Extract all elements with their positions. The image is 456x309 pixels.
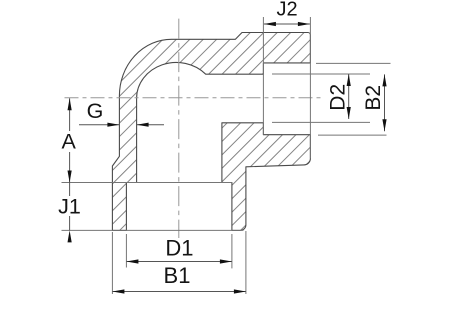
dimension J2 left arrow bbox=[264, 22, 276, 26]
vertical centerline (bottom leg axis) bbox=[178, 19, 180, 238]
dimension J2 line bbox=[264, 23, 310, 25]
dimension J2 right arrow bbox=[298, 22, 310, 26]
dimension D2 bottom arrow bbox=[347, 107, 351, 119]
dimension B1 line bbox=[112, 291, 246, 293]
svg-text:B2: B2 bbox=[362, 85, 385, 111]
dimension D2 line bbox=[348, 74, 350, 119]
bottom socket shoulder edge / A-J1 extension line bbox=[62, 182, 232, 184]
dimension B2 bottom extension line (socket bore bottom) bbox=[318, 134, 387, 136]
dimension J1 line upper bbox=[69, 183, 71, 197]
dimension A top arrow bbox=[68, 98, 72, 110]
svg-text:J2: J2 bbox=[276, 0, 297, 21]
dimension D2 top arrow bbox=[347, 74, 351, 86]
elbow body: inner corner wall band (hatched section cut) bbox=[222, 123, 311, 231]
dimension B1 left arrow bbox=[112, 289, 124, 293]
dimension D2 top extension line (bore top) bbox=[272, 73, 370, 75]
svg-text:G: G bbox=[87, 99, 104, 123]
dimension B2 top extension line (socket bore top) bbox=[316, 62, 391, 64]
dimension D1 right extension line bbox=[231, 234, 233, 268]
dimension J1 line lower bbox=[69, 216, 71, 230]
dimension B2 bottom arrow bbox=[382, 119, 386, 131]
dimension D1 left extension line bbox=[125, 234, 127, 268]
right socket inner end face edge / J2 left extension line bbox=[262, 17, 264, 135]
horizontal centerline (right leg axis) bbox=[65, 97, 323, 99]
dimension A bottom arrow bbox=[68, 171, 72, 183]
svg-text:A: A bbox=[62, 130, 77, 154]
dimension D1 left arrow bbox=[126, 259, 138, 263]
dimension B1 left extension line bbox=[111, 232, 113, 294]
dimension B2 top arrow bbox=[382, 74, 386, 86]
dimension G left leader bbox=[79, 124, 119, 126]
svg-text:J1: J1 bbox=[58, 195, 81, 219]
dimension G left arrow bbox=[107, 123, 119, 127]
dimension A line upper bbox=[69, 98, 71, 131]
dimension G right arrow bbox=[137, 123, 149, 127]
dimension A line lower bbox=[69, 152, 71, 183]
dimension B1 right extension line bbox=[245, 231, 247, 294]
dimension D2 bottom extension line (bore bottom) bbox=[272, 121, 370, 123]
dimension G right leader bbox=[137, 124, 164, 126]
right end face edge / J2 right extension line bbox=[309, 17, 311, 159]
dimension B1 right arrow bbox=[234, 289, 246, 293]
dimension D1 line bbox=[126, 261, 231, 263]
svg-text:D1: D1 bbox=[165, 235, 193, 260]
dimension J1 bottom arrow bbox=[68, 230, 72, 242]
elbow body: outer wall band (hatched section cut) bbox=[112, 33, 310, 231]
bottom end face edge / J1 extension line bbox=[62, 229, 244, 231]
svg-text:D2: D2 bbox=[326, 84, 349, 111]
svg-text:B1: B1 bbox=[164, 263, 191, 288]
dimension B2 line bbox=[384, 74, 386, 131]
dimension D1 right arrow bbox=[220, 259, 232, 263]
